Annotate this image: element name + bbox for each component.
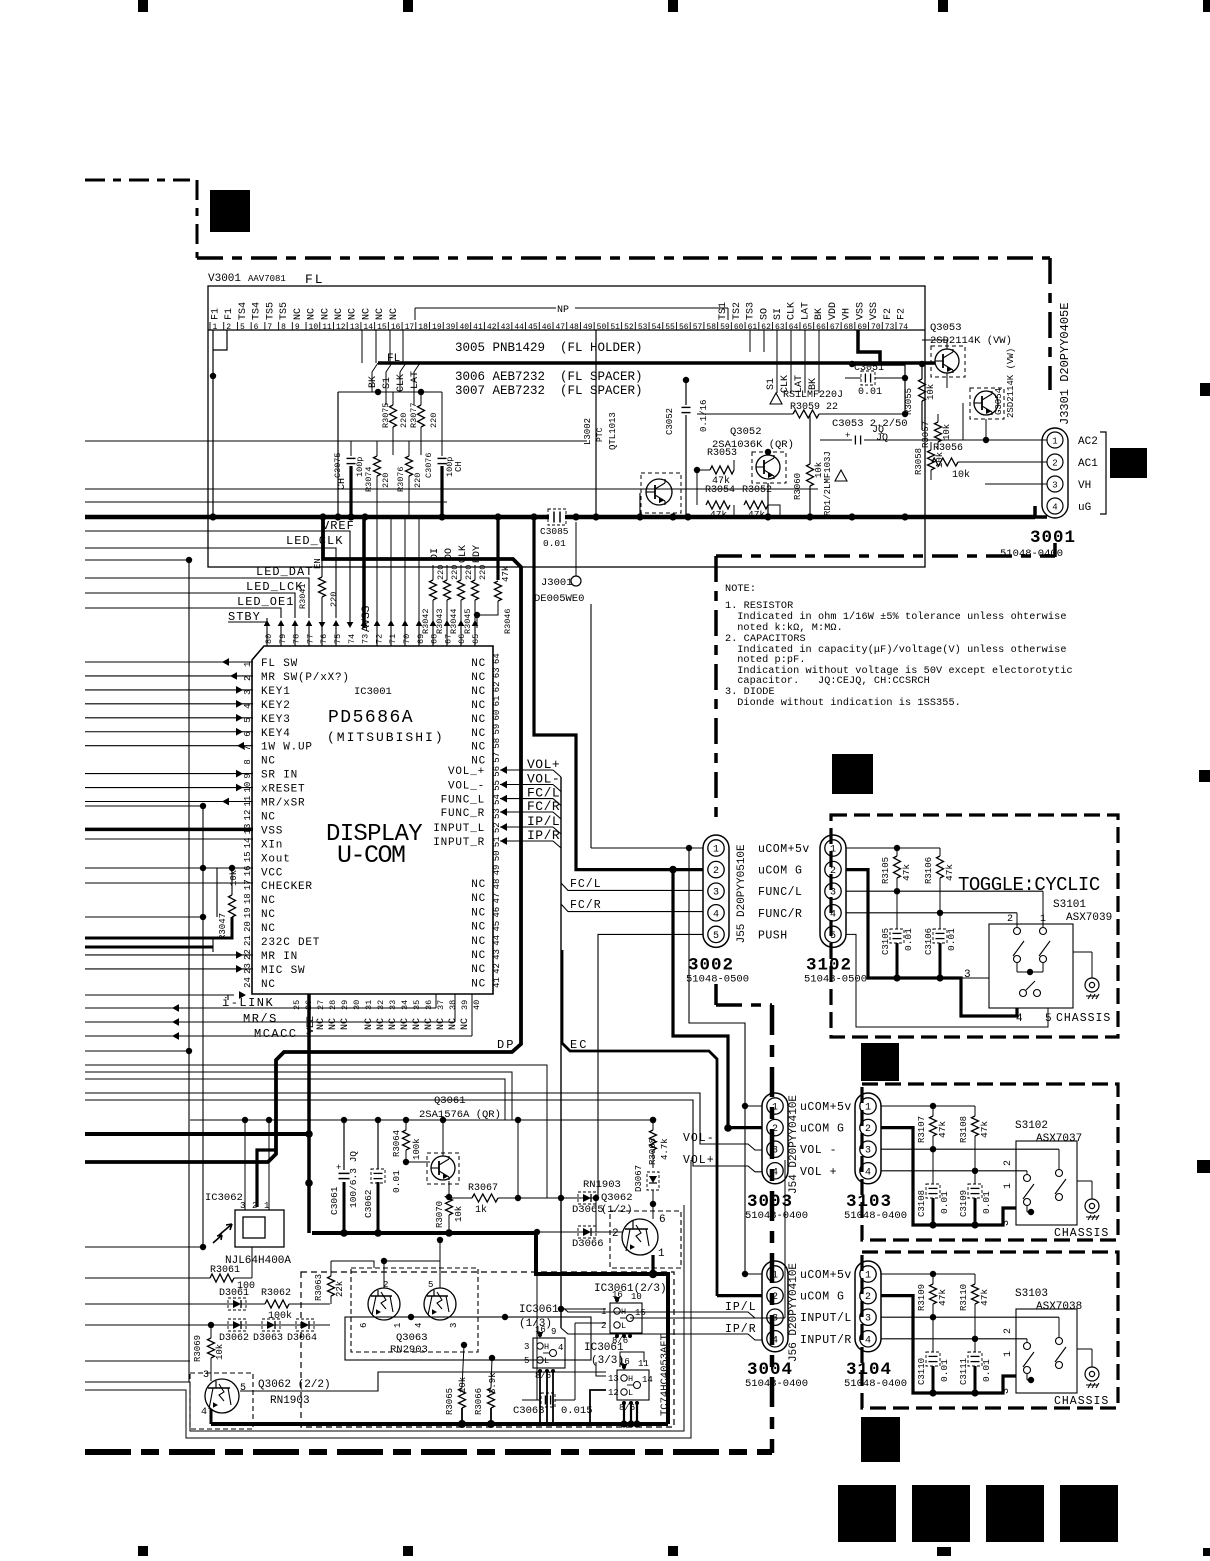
svg-text:IP/L: IP/L [527,814,560,829]
dashed region border bottom [85,1449,772,1455]
svg-text:FUNC/L: FUNC/L [758,886,802,899]
svg-text:NC: NC [261,895,276,907]
svg-text:68: 68 [844,323,854,332]
wire VOL- from left [85,1093,762,1150]
connector 3104 [855,1261,881,1352]
svg-text:FL: FL [387,353,400,365]
svg-text:S3102: S3102 [1015,1120,1048,1132]
svg-text:67: 67 [830,323,840,332]
svg-text:1: 1 [772,1271,778,1282]
svg-text:3006 AEB7232 (FL SPACER): 3006 AEB7232 (FL SPACER) [455,370,643,384]
stepped wire C [85,1079,505,1120]
svg-text:10k: 10k [458,1377,468,1393]
svg-text:R3059 22: R3059 22 [790,402,838,413]
svg-text:KEY3: KEY3 [261,714,291,726]
svg-text:NC: NC [424,1018,435,1030]
svg-text:CH: CH [337,478,348,490]
transistor Q3053 [931,346,965,377]
svg-text:C3106: C3106 [924,928,934,955]
wire VSS thick [85,828,253,832]
svg-text:R3057: R3057 [921,421,931,448]
svg-text:220: 220 [329,592,339,607]
gate ground stubs [539,1371,541,1424]
svg-text:R3064: R3064 [392,1130,402,1157]
wire 3102 pin5 [846,934,1048,1027]
svg-text:AC2: AC2 [1078,436,1098,448]
thick wire left rail [85,1132,309,1136]
svg-text:IP/R: IP/R [527,828,560,843]
svg-text:10k: 10k [229,870,239,886]
stepped wire A [85,1065,547,1198]
svg-text:NC: NC [320,308,331,320]
svg-text:VOL +: VOL + [800,1166,837,1179]
svg-text:76: 76 [319,634,329,644]
svg-text:3007 AEB7232 (FL SPACER): 3007 AEB7232 (FL SPACER) [455,384,643,398]
thick FL rail [378,361,935,365]
wire VREF [85,531,350,626]
svg-text:51048-0500: 51048-0500 [686,973,749,985]
svg-text:41: 41 [473,323,483,332]
svg-text:4: 4 [865,1335,871,1346]
svg-text:VH: VH [1078,480,1091,492]
svg-text:220: 220 [381,473,391,488]
svg-text:INPUT_L: INPUT_L [433,823,485,835]
long wires into FL area [85,440,587,442]
svg-text:220: 220 [450,565,460,580]
svg-text:uG: uG [1078,502,1091,514]
transistor Q3052 [752,452,786,483]
svg-text:IC3062: IC3062 [205,1192,243,1204]
resistor R3075 220 [390,405,397,427]
FL pin stubs to rail [361,330,363,363]
diode D3067 vertical [647,1172,659,1190]
dashed box S3101 [831,815,1118,1037]
svg-text:51048-0400: 51048-0400 [844,1210,907,1222]
misc left lines [85,805,204,807]
svg-text:MR/S: MR/S [243,1012,278,1026]
svg-text:18: 18 [243,893,253,904]
svg-text:1: 1 [865,1103,871,1114]
svg-text:0.01: 0.01 [391,1170,402,1193]
svg-text:1: 1 [393,1323,403,1328]
svg-text:47: 47 [556,323,566,332]
svg-text:INPUT/L: INPUT/L [800,1312,852,1325]
svg-text:1: 1 [1003,1351,1014,1357]
svg-text:NC: NC [471,907,486,919]
svg-text:60: 60 [492,710,502,721]
transistor Q3063b [424,1288,456,1320]
svg-text:MCACC: MCACC [254,1027,298,1041]
svg-text:NC: NC [316,1018,327,1030]
svg-text:3: 3 [865,1146,871,1157]
svg-text:Dionde without indication is 1: Dionde without indication is 1SS355. [731,697,961,709]
svg-text:C3052: C3052 [665,408,675,435]
svg-text:BK: BK [368,376,379,388]
svg-text:11: 11 [322,323,332,332]
svg-text:2SA1576A (QR): 2SA1576A (QR) [419,1109,501,1121]
dashed box S3103 [862,1252,1118,1408]
wire Q3062 pin4 thick [210,1409,213,1424]
svg-text:MR/xSR: MR/xSR [261,798,305,810]
svg-text:noted p:pF.: noted p:pF. [731,654,806,666]
svg-text:PD5686A: PD5686A [328,708,414,728]
black index square mid [832,754,873,794]
wires 3103 pins [881,1105,975,1107]
svg-text:24: 24 [243,977,253,988]
svg-text:3.9k: 3.9k [488,1372,498,1394]
thick bus mid [312,1231,536,1235]
svg-text:FL SW: FL SW [261,658,298,670]
svg-text:VOL_+: VOL_+ [448,766,485,778]
svg-text:10k: 10k [942,424,952,440]
svg-text:C3076: C3076 [424,452,434,478]
svg-text:10k: 10k [952,469,970,481]
svg-text:F1: F1 [211,308,222,320]
svg-text:0.01: 0.01 [946,928,957,951]
svg-text:3: 3 [772,1314,778,1325]
svg-text:RN1903: RN1903 [583,1179,621,1191]
svg-text:16: 16 [243,865,253,876]
svg-text:47k: 47k [944,864,955,881]
svg-text:72: 72 [374,634,384,644]
transistor Q3054 [970,388,1004,419]
svg-text:LED_DAT: LED_DAT [256,565,313,579]
svg-text:NC: NC [376,1018,387,1030]
svg-text:61: 61 [748,323,758,332]
svg-text:77: 77 [305,634,315,644]
svg-text:3002: 3002 [688,955,734,975]
svg-text:R3054: R3054 [705,485,735,496]
svg-text:ASX7037: ASX7037 [1036,1133,1082,1145]
svg-text:D3064: D3064 [287,1333,317,1344]
svg-text:2: 2 [1007,914,1013,925]
wire PUSH down [598,934,703,1198]
svg-text:47k: 47k [901,864,912,881]
thick ground path S3101 [846,870,1017,1016]
svg-text:NC: NC [340,1018,351,1030]
wire IP/L out [561,1306,762,1318]
dashed region border top-left [85,179,190,182]
svg-text:10: 10 [309,323,319,332]
svg-text:3005 PNB1429 (FL HOLDER): 3005 PNB1429 (FL HOLDER) [455,341,643,355]
wires 3003 left [745,1105,762,1107]
svg-text:RN2903: RN2903 [390,1344,428,1356]
svg-text:5: 5 [524,1356,529,1366]
svg-text:MIC SW: MIC SW [261,965,305,977]
svg-text:LAT: LAT [410,371,421,389]
svg-text:NC: NC [448,1018,459,1030]
wire VOL+ from left [85,1100,762,1172]
wire FL pins 1-2 stub [213,330,227,376]
svg-text:R3062: R3062 [261,1288,291,1299]
connector 3001 [1042,428,1068,518]
svg-text:50: 50 [597,323,607,332]
svg-text:100k: 100k [268,1310,292,1322]
svg-text:CH: CH [454,461,464,472]
svg-text:D3061: D3061 [219,1288,249,1299]
caps C3105 C3106 wires [896,891,898,929]
transistor Q3062 1/2 [610,1211,681,1268]
svg-text:C3085: C3085 [540,526,569,537]
svg-text:1k: 1k [475,1204,487,1216]
connector 3003 [762,1093,788,1184]
svg-text:1: 1 [865,1271,871,1282]
wires top pins 72-69 [376,517,378,624]
svg-text:1: 1 [772,1103,778,1114]
wire STBY [228,618,267,622]
svg-text:43: 43 [501,323,511,332]
svg-text:DE005WE0: DE005WE0 [534,593,584,605]
FL display V3001 outline [208,286,925,567]
svg-text:0.01: 0.01 [858,387,882,398]
svg-text:20: 20 [243,921,253,932]
svg-text:NC: NC [364,1018,375,1030]
svg-text:4: 4 [558,1343,563,1353]
svg-text:LED_LCK: LED_LCK [246,580,303,594]
svg-text:NC: NC [471,700,486,712]
wires FL columns mid [371,372,373,392]
svg-text:48: 48 [492,879,502,890]
svg-text:IC3061: IC3061 [519,1304,559,1316]
svg-text:TOGGLE:CYCLIC: TOGGLE:CYCLIC [958,874,1100,896]
transistor Q3061 [427,1153,459,1184]
svg-text:42: 42 [492,963,502,974]
svg-text:FC/R: FC/R [570,899,602,912]
svg-text:9: 9 [551,1327,556,1337]
svg-text:56: 56 [679,323,689,332]
svg-text:CHECKER: CHECKER [261,881,313,893]
svg-text:220: 220 [413,473,423,488]
svg-text:J3001: J3001 [541,577,573,589]
svg-text:4: 4 [865,1167,871,1178]
svg-text:VOL+: VOL+ [527,757,560,772]
svg-text:Indicated in ohm 1/16W ±5% tol: Indicated in ohm 1/16W ±5% tolerance unl… [731,611,1067,623]
svg-text:11: 11 [638,1359,649,1369]
svg-text:uCOM G: uCOM G [800,1291,844,1304]
svg-text:L: L [628,1388,633,1398]
svg-text:V3001: V3001 [208,273,241,285]
op-amp U1 IC3001 body [252,646,493,994]
AVSS pin wire [362,517,366,628]
chassis ground S3101 [1085,978,1099,992]
rail +5 bottom [190,1119,655,1121]
svg-text:40: 40 [472,1000,482,1010]
svg-text:NC: NC [471,879,486,891]
wires bottom loop [85,1205,684,1431]
resistor R3077 220 [418,405,425,427]
svg-text:C3062: C3062 [363,1189,374,1218]
svg-text:Q3062: Q3062 [601,1192,633,1204]
svg-text:uCOM G: uCOM G [758,865,802,878]
wire LED_LCK [85,593,295,618]
svg-text:R3047: R3047 [218,913,228,940]
NP net bracket [415,307,556,309]
connector 3002 [703,835,729,947]
svg-text:1: 1 [1003,1183,1014,1189]
svg-text:S3101: S3101 [1053,899,1086,911]
svg-text:KEY1: KEY1 [261,686,291,698]
svg-text:PUSH: PUSH [758,929,788,942]
svg-text:uCOM G: uCOM G [800,1123,844,1136]
svg-text:66: 66 [457,634,467,644]
svg-text:55: 55 [492,780,502,791]
svg-text:FL: FL [305,272,325,287]
wire uCOM+5v chain [689,848,745,1274]
svg-text:51: 51 [610,323,620,332]
svg-text:R3110: R3110 [959,1284,969,1311]
svg-text:65: 65 [471,634,481,644]
svg-text:6: 6 [359,1323,369,1328]
svg-text:NC: NC [400,1018,411,1030]
svg-text:NC: NC [471,978,486,990]
svg-text:CHASSIS: CHASSIS [1056,1012,1111,1025]
svg-text:70: 70 [871,323,881,332]
thick wire to IC3062 [257,1150,276,1207]
wires 3102 pin4 to switch 2 [846,912,1017,914]
svg-text:220: 220 [399,413,409,428]
svg-text:capacitor. JQ:CEJQ, CH:CCSRC: capacitor. JQ:CEJQ, CH:CCSRCH [731,675,930,687]
svg-text:52: 52 [492,822,502,833]
black index square top-left [210,190,250,232]
svg-text:F2: F2 [883,308,894,320]
svg-text:0.1/16: 0.1/16 [699,400,709,432]
svg-text:47k: 47k [937,1289,948,1306]
wire Q3062 pin1 thick [651,1255,654,1274]
svg-text:NC: NC [361,308,372,320]
svg-text:3: 3 [772,1146,778,1157]
wires 3004 left [745,1273,762,1275]
svg-text:J56 D20PYY0410E: J56 D20PYY0410E [788,1263,800,1362]
svg-text:BK: BK [814,308,825,320]
svg-text:NC: NC [388,1018,399,1030]
svg-text:42: 42 [487,323,497,332]
svg-text:15: 15 [635,1308,646,1318]
svg-text:NC: NC [471,658,486,670]
svg-text:19: 19 [243,907,253,918]
svg-text:NC: NC [471,964,486,976]
svg-text:R3058: R3058 [914,448,924,475]
svg-text:220: 220 [464,565,474,580]
svg-text:65: 65 [802,323,812,332]
svg-text:R3042: R3042 [421,608,431,634]
svg-text:D3066: D3066 [572,1238,604,1250]
dashed region border vertical mid-right [770,1005,775,1453]
svg-text:NC: NC [334,308,345,320]
svg-text:50: 50 [492,850,502,861]
svg-text:F2: F2 [897,308,908,320]
svg-text:R3045: R3045 [463,608,473,634]
svg-text:C3110: C3110 [917,1358,927,1385]
svg-text:59: 59 [720,323,730,332]
svg-text:RS1LMF220J: RS1LMF220J [783,390,843,401]
svg-text:FUNC_R: FUNC_R [441,808,485,820]
svg-text:NC: NC [471,686,486,698]
svg-text:S1: S1 [766,378,777,390]
svg-text:60: 60 [734,323,744,332]
svg-text:IP/R: IP/R [725,1323,757,1336]
power bus [85,515,1035,520]
svg-text:12: 12 [608,1388,619,1398]
svg-text:46: 46 [492,907,502,918]
wire LED_DAT [85,578,309,618]
svg-text:48: 48 [569,323,579,332]
svg-text:17: 17 [243,879,253,890]
svg-text:51048-0400: 51048-0400 [745,1378,808,1390]
svg-text:INPUT/R: INPUT/R [800,1334,852,1347]
svg-text:3103: 3103 [846,1192,892,1212]
svg-text:IC3061: IC3061 [584,1342,624,1354]
wires VOL FC IP to signal bus [500,766,507,774]
svg-text:4: 4 [772,1335,778,1346]
svg-text:51: 51 [492,836,502,847]
dashed region border upper [197,256,1050,260]
svg-text:R3105: R3105 [881,857,891,884]
wire uCOM G chain thick [673,870,728,1128]
stepped wire B [85,1072,512,1120]
black index square 3103 [861,1043,899,1081]
svg-text:R3106: R3106 [924,857,934,884]
wires 3102 pin3 to switch 1 [846,890,1043,892]
svg-text:10: 10 [631,1292,642,1302]
svg-text:51048-0500: 51048-0500 [804,973,867,985]
wire LED_CLK [85,548,336,618]
black index square 3104 [861,1417,900,1462]
wire q3061 right [517,1120,519,1198]
FL rail slashes [372,363,378,372]
svg-text:C3108: C3108 [917,1190,927,1217]
svg-text:3: 3 [1052,481,1057,491]
svg-text:TS5: TS5 [265,302,276,320]
svg-text:49: 49 [492,865,502,876]
connector 3102 [820,835,846,947]
svg-text:NC: NC [261,909,276,921]
svg-text:R3076: R3076 [396,466,406,492]
wires left stubs bottom [85,1246,203,1248]
svg-text:TS5: TS5 [279,302,290,320]
switch S3101 box [989,924,1073,1008]
resistors R3042-R3045 220 [430,580,437,600]
svg-text:BK: BK [808,378,819,390]
svg-text:R3069: R3069 [193,1335,203,1362]
svg-text:VH: VH [842,308,853,320]
thick ground path S3102 [881,1128,1016,1225]
svg-text:1: 1 [658,1248,665,1260]
capacitor C3063 0.015 [541,1393,555,1407]
wire IP/R out [561,1328,762,1340]
svg-text:NC: NC [412,1018,423,1030]
svg-text:1: 1 [1052,437,1057,447]
svg-text:S3103: S3103 [1015,1288,1048,1300]
wire FL pin1 down [212,376,214,517]
svg-text:L: L [621,1321,626,1331]
svg-text:VOL-: VOL- [683,1132,715,1145]
svg-text:INPUT_R: INPUT_R [433,837,485,849]
svg-text:74: 74 [347,634,357,644]
svg-text:MR IN: MR IN [261,951,298,963]
svg-text:3: 3 [713,888,719,899]
svg-text:78: 78 [292,634,302,644]
svg-text:xRESET: xRESET [261,784,305,796]
svg-text:4: 4 [713,909,719,920]
svg-text:52: 52 [624,323,634,332]
svg-text:Q3062 (2/2): Q3062 (2/2) [258,1379,331,1391]
svg-text:44: 44 [514,323,524,332]
svg-text:63: 63 [775,323,785,332]
svg-text:79: 79 [278,634,288,644]
wires FL right pins down [776,330,778,393]
svg-text:2: 2 [1052,459,1057,469]
svg-text:55: 55 [665,323,675,332]
